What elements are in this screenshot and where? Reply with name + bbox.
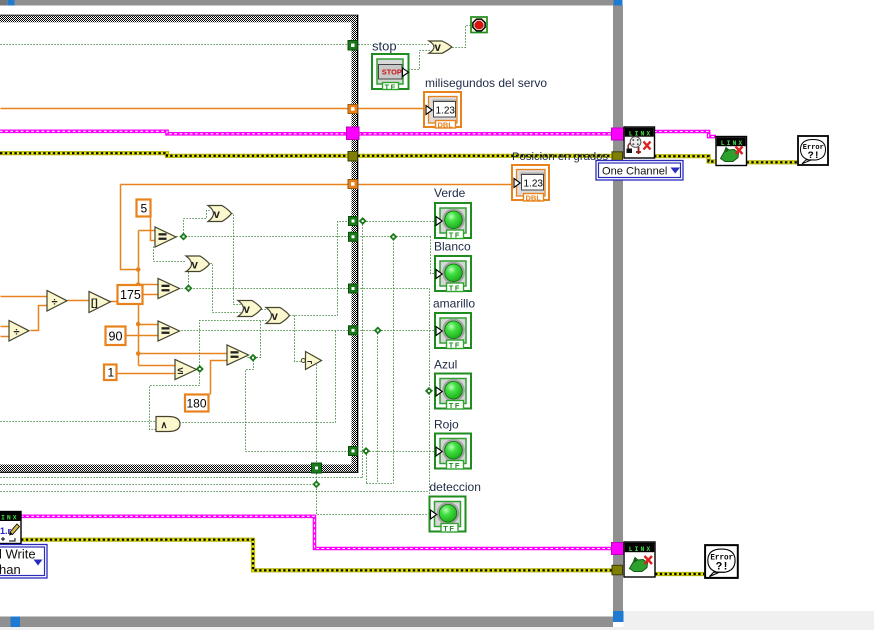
linx write icon U4 (clipped left)	[0, 512, 21, 544]
wire equals4 to or4	[254, 321, 261, 358]
wire or to loop condition	[453, 26, 472, 48]
linx close icon U2	[716, 137, 747, 166]
bar square olive bottom	[612, 565, 623, 575]
svg-text:Azul: Azul	[434, 358, 457, 372]
wire stop net outside	[359, 44, 431, 46]
tunnel stop (green)	[348, 41, 358, 51]
svg-text:v: v	[244, 304, 251, 316]
bar square olive top	[612, 152, 623, 162]
green junction diamonds	[180, 217, 433, 488]
wire stop net inside loop	[1, 44, 349, 46]
tunnel A verde	[349, 217, 358, 226]
led rojo	[435, 434, 471, 471]
tunnel error top (olive)	[348, 152, 358, 162]
linx close icon U3	[624, 542, 655, 577]
or gate 3	[238, 301, 262, 317]
svg-text:Verde: Verde	[434, 186, 466, 200]
svg-text:INX: INX	[1, 515, 19, 522]
wire milisegundos across loop	[1, 108, 426, 110]
wire azul	[429, 331, 438, 515]
svg-text:180: 180	[187, 397, 207, 411]
svg-text:STOP: STOP	[382, 68, 402, 77]
magenta resource wires	[0, 131, 716, 548]
bottom scrollbar	[0, 617, 613, 628]
or gate stop	[429, 41, 452, 54]
wire to equals2	[139, 285, 159, 295]
constant 1	[104, 365, 117, 381]
constant 180	[185, 395, 209, 412]
svg-text:¬: ¬	[307, 357, 312, 367]
stop button	[372, 54, 409, 91]
orange junction dots	[136, 267, 141, 356]
led deteccion	[430, 497, 466, 534]
equals node 4	[227, 345, 249, 365]
bar square magenta bottom	[612, 543, 624, 555]
svg-text:TF: TF	[385, 82, 397, 91]
equals node 3	[158, 321, 180, 341]
svg-text:175: 175	[120, 288, 141, 302]
svg-text:∧: ∧	[161, 420, 168, 431]
equals node 1	[155, 227, 176, 247]
loop condition terminal	[471, 17, 487, 33]
not node	[301, 352, 321, 370]
svg-text:v: v	[192, 260, 199, 272]
wire const 5 to equals1	[151, 217, 156, 241]
svg-text:[]: []	[91, 298, 98, 309]
or gate 4	[266, 308, 290, 324]
or gate 1	[208, 206, 232, 222]
svg-text:v: v	[214, 209, 221, 221]
error handler icon 2	[705, 545, 738, 578]
while loop bottom border	[0, 465, 357, 472]
linx servo icon U1	[624, 127, 655, 158]
equals node 2	[158, 279, 180, 299]
wire orange vertical trunk	[121, 185, 139, 366]
tunnel milisegundos (orange)	[348, 105, 358, 114]
wire verde	[1, 222, 438, 478]
wire rojo	[358, 452, 438, 484]
svg-text:÷: ÷	[14, 326, 20, 338]
wire to lessequal	[117, 366, 176, 374]
wire or4 to not	[295, 316, 301, 362]
and gate	[156, 417, 180, 432]
or gate 2	[186, 256, 210, 272]
wire to equals1	[139, 230, 156, 232]
indicator milisegundos del servo	[424, 92, 461, 129]
wire index out	[111, 301, 119, 303]
led verde	[435, 203, 471, 240]
wire or3 out to or4	[259, 309, 267, 311]
tunnel magenta top	[347, 127, 360, 140]
divide node 1	[47, 291, 67, 312]
indicator posicion en grados	[512, 165, 549, 202]
wire divide1 to index	[68, 300, 90, 302]
wire or2 out down to or3	[211, 264, 241, 313]
svg-text:÷: ÷	[52, 296, 58, 308]
wire and in	[1, 421, 157, 423]
svg-text:v: v	[435, 42, 442, 54]
svg-text:One Channel: One Channel	[602, 166, 667, 178]
bar square magenta top	[612, 128, 624, 140]
wire to equals4	[139, 354, 228, 395]
error cluster wires	[0, 153, 797, 574]
svg-text:Blanco: Blanco	[434, 240, 471, 254]
wire not out to bottom tunnel	[316, 365, 318, 464]
wire or4 out to tunnelA	[290, 222, 349, 316]
svg-text:≤: ≤	[178, 365, 184, 377]
constant 90	[106, 327, 126, 346]
tunnel bottom deteccion	[312, 463, 322, 473]
divide node 2	[9, 321, 29, 342]
vertical splitter bar	[613, 6, 623, 612]
top scrollbar	[0, 0, 614, 6]
tunnel C amarillo	[349, 284, 358, 293]
svg-text:90: 90	[109, 330, 123, 344]
dropdown one channel	[596, 161, 683, 181]
error handler icon 1	[798, 136, 828, 165]
led amarillo	[435, 313, 471, 350]
wire equals1 to or2	[154, 247, 187, 262]
wire or2 hook	[188, 272, 190, 289]
wire divide1 inputs	[1, 297, 48, 331]
constant 5	[137, 200, 151, 217]
led azul	[435, 374, 471, 411]
wire stop button to or	[409, 51, 431, 70]
svg-text:deteccion: deteccion	[430, 480, 481, 494]
svg-text:han: han	[0, 562, 21, 577]
tunnel D azul	[349, 326, 358, 335]
svg-text:milisegundos del servo: milisegundos del servo	[425, 76, 547, 90]
svg-text:1: 1	[108, 366, 115, 380]
wire equals1 branch to or1	[184, 211, 210, 237]
wire amarillo	[358, 289, 438, 484]
wire equals1 out to tunnelB	[177, 236, 349, 238]
tunnel B blanco	[349, 232, 358, 241]
svg-text:5: 5	[141, 202, 148, 216]
wire equals3 out to tunnelD	[182, 330, 349, 332]
led blanco	[435, 256, 471, 293]
while loop right border	[352, 16, 358, 472]
svg-text:l Write: l Write	[0, 547, 36, 562]
wire blanco	[358, 237, 438, 484]
dropdown write chan (clipped left)	[0, 545, 47, 579]
while loop top border	[0, 15, 358, 16]
wire equals4 out	[246, 358, 349, 452]
svg-text:stop: stop	[372, 39, 397, 54]
wire to equals3	[127, 325, 159, 336]
wire or1 out down to or3	[232, 214, 241, 305]
tunnel posicion (orange)	[348, 180, 358, 189]
constant 175	[118, 285, 143, 304]
svg-text:Rojo: Rojo	[434, 418, 459, 432]
green boolean wires	[1, 26, 472, 515]
wire and out up	[180, 331, 336, 423]
wire divide2 inputs	[1, 327, 10, 337]
wire equals2 out to tunnelC	[182, 288, 349, 290]
wire deteccion	[1, 474, 433, 515]
svg-text:v: v	[272, 311, 279, 323]
svg-text:Posicion en grados: Posicion en grados	[512, 151, 608, 163]
index array node	[89, 292, 111, 313]
label stop	[371, 39, 397, 54]
wire posicion main orange trunk	[121, 184, 513, 186]
orange numeric wires	[1, 109, 513, 395]
lessequal node	[175, 360, 197, 380]
svg-text:amarillo: amarillo	[433, 297, 475, 311]
wire lessequal net to or4	[150, 321, 267, 430]
tunnel E rojo	[349, 447, 358, 456]
